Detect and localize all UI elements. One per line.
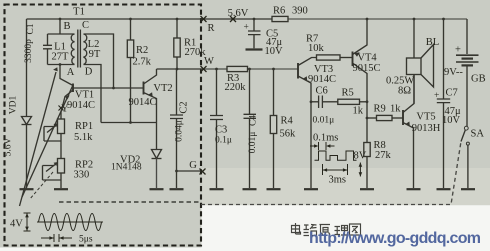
zener diode VD1 5.6V (22, 19, 32, 188)
arrowheads pulse measures (314, 144, 362, 176)
transistor VT2 (144, 69, 157, 123)
resistor R9 (367, 115, 403, 120)
svg-text:VT5: VT5 (416, 112, 435, 123)
ground bar C4 (243, 188, 257, 190)
svg-text:R9: R9 (374, 104, 386, 115)
ground bar C5 (246, 48, 263, 50)
wire W rail to VT3 base (248, 68, 299, 70)
svg-text:C2: C2 (179, 101, 190, 113)
transistor VT1 (60, 65, 73, 120)
inductor L1 winding (71, 34, 74, 65)
ground bar VT5 emitter (407, 188, 421, 190)
svg-text:C1: C1 (26, 23, 36, 34)
test point R cross (201, 16, 207, 22)
svg-text:3300p: 3300p (24, 39, 34, 63)
VT5 emitter arrowhead (405, 122, 409, 127)
wire L2 top to C terminal drop (84, 34, 114, 88)
ground bar R4 (267, 188, 281, 190)
svg-text:C3: C3 (215, 125, 227, 136)
ground bar SA (461, 188, 475, 190)
svg-text:5.1k: 5.1k (74, 132, 93, 143)
svg-text:A: A (67, 67, 75, 78)
svg-text:R6: R6 (273, 6, 285, 17)
ground bar C3 (210, 188, 224, 190)
battery GB (456, 19, 479, 126)
svg-text:2.7k: 2.7k (133, 57, 152, 68)
VT1 emitter arrowhead (65, 95, 70, 99)
wire R7 to VT4 base (340, 57, 353, 59)
svg-text:R5: R5 (342, 88, 354, 99)
white paper bottom strip (202, 205, 490, 251)
wire W rail (157, 68, 202, 70)
svg-text:0.1μ: 0.1μ (215, 136, 232, 146)
probe line to VT1 (22, 85, 73, 197)
svg-text:27k: 27k (375, 150, 392, 161)
dashed divider above waveform strip (59, 201, 201, 203)
svg-text:9T: 9T (89, 49, 101, 60)
resistor R7 (317, 55, 341, 60)
svg-text:C4: C4 (249, 115, 259, 126)
svg-text:VT1: VT1 (75, 90, 94, 101)
svg-text:9V--: 9V-- (444, 67, 463, 78)
ground bar VD2 (150, 188, 164, 190)
dashed enclosure left box (5, 5, 202, 246)
svg-text:0.1ms: 0.1ms (313, 133, 338, 144)
svg-text:8Ω: 8Ω (398, 86, 411, 97)
svg-text:9014C: 9014C (67, 100, 95, 111)
svg-text:27T: 27T (52, 52, 70, 63)
wire emitter bottom bus (101, 122, 157, 124)
svg-text:B: B (63, 21, 70, 32)
svg-text:VD1: VD1 (9, 96, 19, 115)
capacitor C6 coupling (311, 96, 338, 109)
dashed bottom border right section (201, 142, 461, 205)
svg-text:0.01μ: 0.01μ (313, 116, 335, 126)
svg-text:8V: 8V (354, 151, 367, 162)
resistor R3 (227, 66, 248, 71)
ground bar VT3 emitter (304, 188, 318, 190)
svg-text:C: C (82, 20, 89, 31)
wire VT1 base to VT2 base (73, 87, 144, 89)
capacitor C1 plates (43, 45, 52, 49)
capacitor C2 (170, 69, 183, 188)
capacitor C7 electrolytic (437, 19, 450, 188)
svg-text:9014C: 9014C (308, 74, 336, 85)
svg-text:390: 390 (292, 6, 308, 17)
node B junction (59, 18, 62, 21)
wire R5 to VT4 collector (360, 101, 368, 103)
svg-text:+: + (455, 45, 461, 56)
speaker BL (407, 19, 434, 104)
capacitor C4 (244, 69, 257, 188)
svg-text:C7: C7 (446, 88, 458, 99)
wire B terminal (59, 19, 61, 34)
svg-text:BL: BL (426, 37, 439, 48)
wire top supply rail right faded (288, 18, 467, 20)
svg-text:http://www.go-gddq.com: http://www.go-gddq.com (309, 230, 481, 247)
svg-text:R2: R2 (136, 45, 148, 56)
test point 5.6V cross (230, 16, 236, 22)
sine waveform annotation (37, 221, 103, 223)
pulse waveform annotation (310, 142, 360, 177)
potentiometer RP1 (44, 119, 65, 159)
svg-text:RP1: RP1 (75, 121, 93, 132)
resistor R4 (270, 69, 276, 188)
probe arrow to node A (20, 72, 57, 206)
svg-text:220k: 220k (225, 82, 247, 93)
resistor R8 (364, 143, 370, 157)
svg-text:4V: 4V (10, 219, 23, 230)
svg-text:SA: SA (471, 129, 485, 140)
5us period marks (41, 237, 72, 239)
capacitor C5 electrolytic (248, 19, 261, 48)
transistor VT5 (403, 75, 414, 189)
subtle lighter zone above bottom strip (202, 168, 490, 205)
wire L2 bottom D terminal drop (84, 65, 102, 123)
svg-text:9015C: 9015C (352, 63, 380, 74)
transistor VT3 (298, 58, 317, 189)
test point G cross (200, 169, 206, 175)
svg-text:270k: 270k (185, 47, 207, 58)
svg-text:T1: T1 (73, 7, 85, 18)
transistor VT4 pnp (353, 19, 368, 143)
ground bar VD1 (20, 188, 34, 190)
diode VD2 1N4148 (152, 123, 162, 189)
svg-text:0.04μ: 0.04μ (175, 120, 185, 142)
svg-text:10V: 10V (265, 46, 284, 57)
svg-text:10V: 10V (442, 115, 461, 126)
node A junction (59, 63, 62, 66)
svg-text:VT2: VT2 (153, 83, 172, 94)
caption dianlu yuanlitu (simplified CJK strokes) (292, 223, 361, 236)
svg-text:5μs: 5μs (79, 235, 93, 245)
test point Y cross (59, 106, 64, 111)
VT2 emitter arrowhead (148, 92, 153, 97)
dashed wiper pointer (30, 172, 54, 200)
svg-text:9013H: 9013H (412, 123, 441, 134)
svg-text:0.01μ: 0.01μ (248, 132, 258, 154)
svg-text:GB: GB (471, 74, 486, 85)
svg-text:G: G (189, 160, 197, 171)
svg-text:R: R (207, 23, 214, 34)
test point W cross (201, 66, 207, 72)
svg-text:R4: R4 (281, 116, 294, 127)
resistor R6 (272, 16, 288, 21)
VT4 emitter arrowhead pnp (354, 52, 359, 57)
svg-text:1N4148: 1N4148 (111, 163, 142, 173)
wire W rail right of border (201, 68, 248, 70)
svg-text:5.6V: 5.6V (228, 8, 249, 19)
VT3 emitter arrowhead (303, 76, 307, 81)
svg-text:330: 330 (74, 170, 90, 181)
ground bar R8 (360, 188, 374, 190)
svg-text:1k: 1k (353, 106, 364, 117)
svg-text:9014C: 9014C (128, 97, 156, 108)
transformer core (78, 30, 81, 68)
node C-drop junction (112, 87, 115, 90)
capacitor C3 (210, 69, 223, 188)
svg-text:56k: 56k (280, 129, 297, 140)
ground bar C2 (170, 188, 184, 190)
svg-text:D: D (85, 67, 93, 78)
resistor R2 (127, 19, 133, 123)
ground bar C7 (437, 188, 451, 190)
svg-text:5.6V: 5.6V (4, 138, 14, 157)
potentiometer RP2 (43, 159, 65, 189)
4V measure arrow (26, 214, 28, 231)
svg-text:1k: 1k (390, 104, 401, 115)
switch SA (464, 126, 468, 130)
svg-text:C6: C6 (316, 86, 328, 97)
resistor R5 (338, 99, 360, 104)
svg-text:3ms: 3ms (329, 175, 347, 186)
svg-text:+: + (434, 91, 439, 101)
transformer T1 tank box with C1 (43, 34, 75, 65)
inductor L2 winding (84, 34, 87, 65)
ground bar RP2 (54, 188, 68, 190)
wire top supply rail (27, 18, 289, 20)
svg-text:+: + (244, 23, 249, 33)
svg-text:VT4: VT4 (357, 53, 377, 64)
svg-text:W: W (204, 56, 214, 67)
svg-text:10k: 10k (308, 43, 325, 54)
wire G line (177, 170, 203, 172)
resistor R1 (174, 19, 180, 69)
